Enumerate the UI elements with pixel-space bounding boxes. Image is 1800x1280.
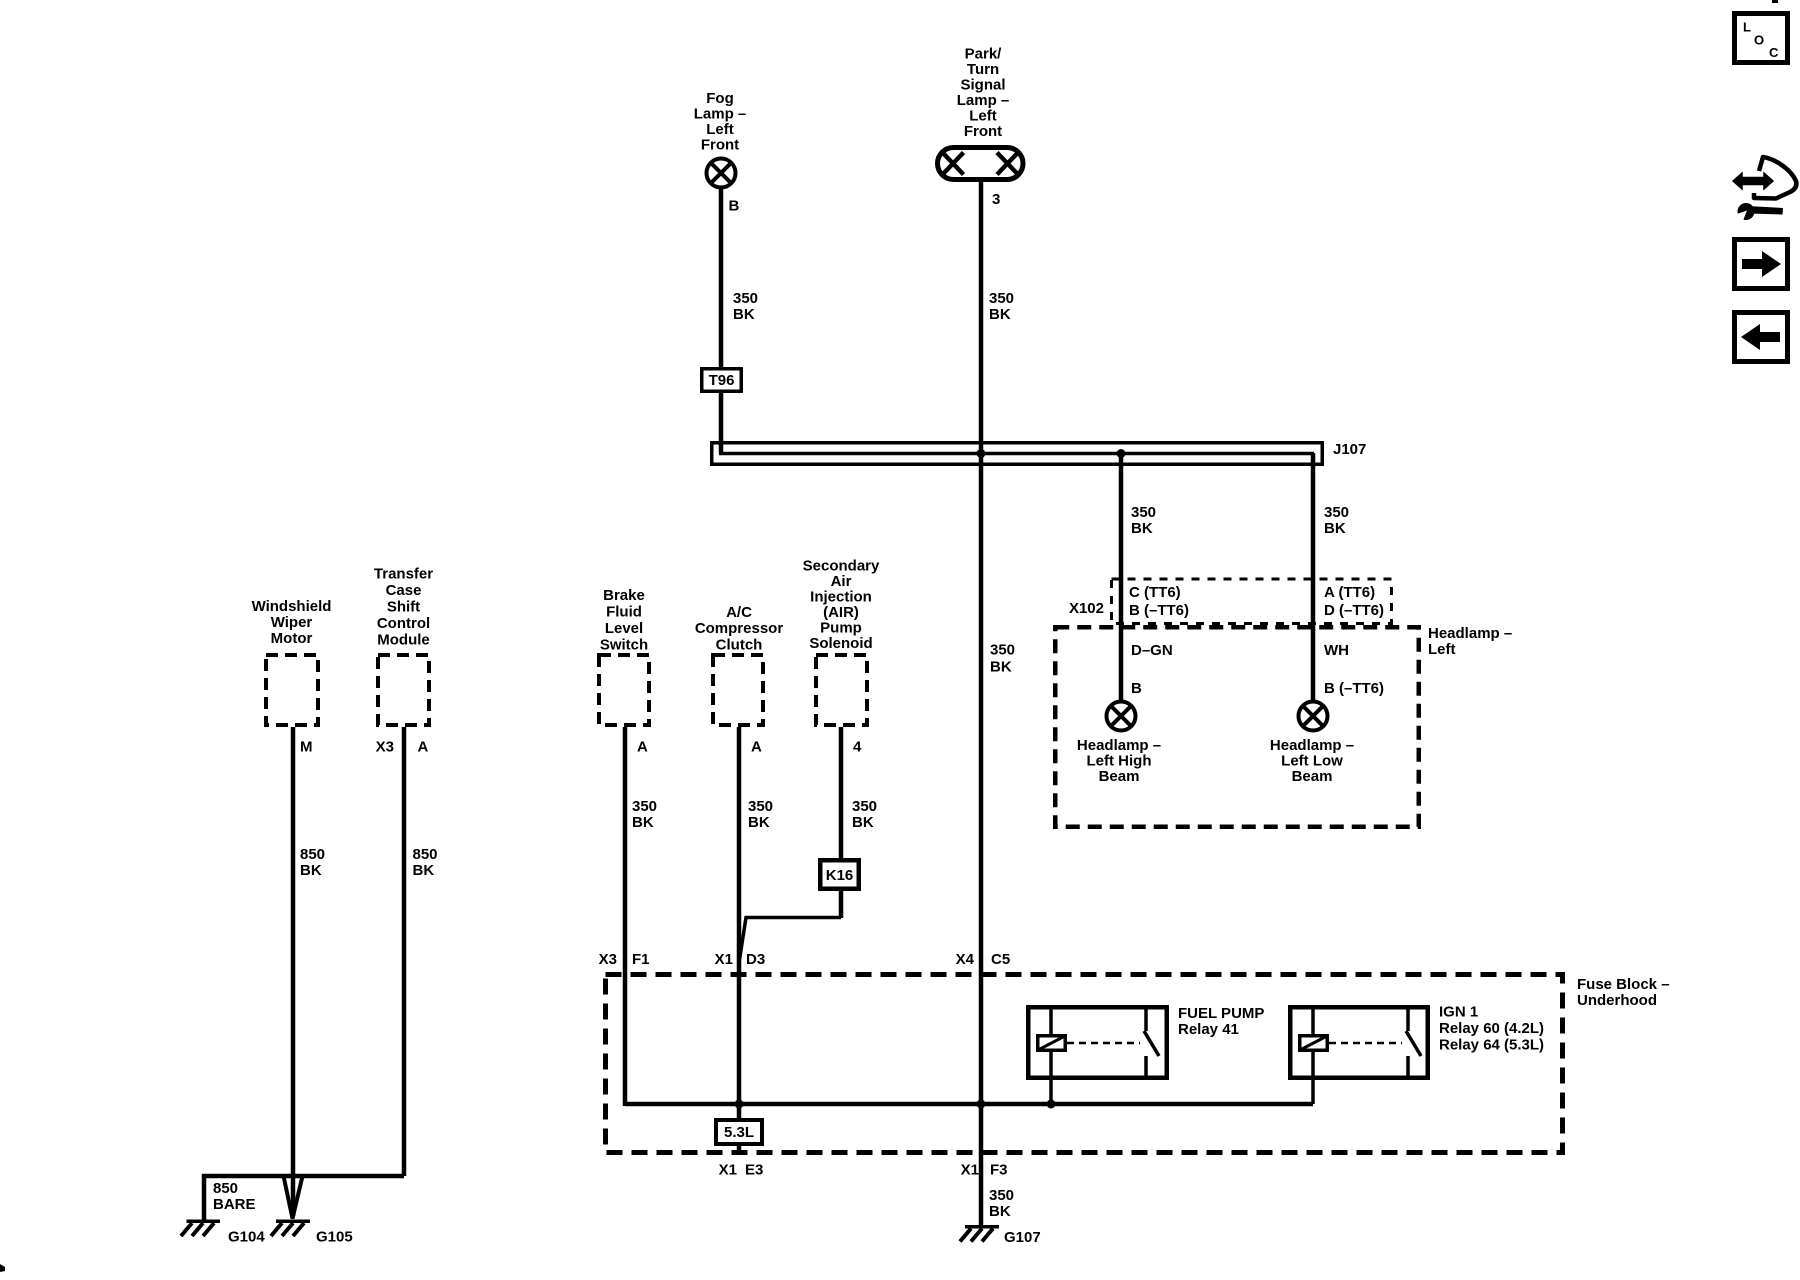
tool/diagnostic icon (double arrow, wrench, outline)	[1733, 157, 1796, 222]
svg-text:350: 350	[852, 798, 877, 815]
wire label 350 BK (park middle)	[990, 642, 1015, 676]
wire: air pump solenoid to K16	[839, 727, 844, 860]
fog lamp symbol	[707, 159, 736, 188]
svg-text:B (–TT6): B (–TT6)	[1129, 602, 1189, 619]
Headlamp - Left dashed box	[1055, 627, 1419, 827]
svg-text:Left: Left	[1428, 641, 1456, 658]
junction dot bus/park wire	[977, 1100, 986, 1109]
svg-text:Left: Left	[706, 121, 734, 138]
svg-text:C: C	[1769, 45, 1779, 60]
svg-text:Air: Air	[831, 573, 852, 590]
wire label 850 BK (transfer)	[413, 846, 438, 879]
svg-text:Left: Left	[969, 108, 997, 125]
Fuse Block - Underhood label	[1577, 976, 1670, 1009]
svg-text:WH: WH	[1324, 642, 1349, 659]
wire label 350 BK (G107 leg)	[989, 1187, 1014, 1220]
A/C Compressor Clutch dashed box	[713, 655, 763, 725]
svg-text:Solenoid: Solenoid	[809, 635, 872, 652]
svg-text:Beam: Beam	[1099, 768, 1140, 785]
svg-text:Shift: Shift	[387, 599, 420, 616]
Windshield Wiper Motor label	[252, 598, 332, 647]
svg-text:A (TT6): A (TT6)	[1324, 584, 1375, 601]
junction dot bus/D3 wire	[735, 1100, 744, 1109]
Transfer Case Shift Control Module dashed box	[378, 655, 429, 725]
svg-text:Compressor: Compressor	[695, 620, 784, 637]
svg-text:Front: Front	[964, 123, 1002, 140]
svg-text:J107: J107	[1333, 441, 1366, 458]
svg-text:Relay 64 (5.3L): Relay 64 (5.3L)	[1439, 1037, 1544, 1054]
svg-text:X102: X102	[1069, 600, 1104, 617]
svg-text:G105: G105	[316, 1229, 353, 1246]
svg-text:Beam: Beam	[1292, 768, 1333, 785]
svg-text:Headlamp –: Headlamp –	[1428, 625, 1512, 642]
svg-text:BK: BK	[1131, 520, 1153, 537]
wire: windshield wiper motor pin M to ground splice	[291, 727, 296, 1216]
svg-text:BK: BK	[989, 306, 1011, 323]
pin labels A (TT6) / D (-TT6)	[1324, 584, 1384, 619]
Headlamp - Left label	[1428, 625, 1512, 658]
svg-text:B (–TT6): B (–TT6)	[1324, 680, 1384, 697]
A/C Compressor Clutch label	[695, 604, 784, 654]
svg-text:Pump: Pump	[820, 620, 862, 637]
svg-text:BK: BK	[300, 862, 322, 879]
Headlamp - Left Low Beam label	[1270, 737, 1354, 785]
svg-text:T96: T96	[709, 372, 735, 389]
connector X102 dotted box	[1112, 579, 1392, 624]
svg-text:X1: X1	[961, 1162, 979, 1179]
5.3L tag box	[716, 1120, 762, 1144]
svg-text:Wiper: Wiper	[271, 614, 313, 631]
Secondary Air Injection Pump Solenoid dashed box	[816, 655, 867, 725]
wire: bottom-left horizontal run to G104	[204, 1176, 404, 1222]
svg-text:Headlamp –: Headlamp –	[1077, 737, 1161, 754]
wire label 350 BK (low beam)	[1324, 504, 1349, 537]
svg-text:M: M	[300, 739, 313, 756]
svg-text:Level: Level	[605, 620, 643, 637]
wire label 350 BK (park upper)	[989, 290, 1014, 323]
svg-text:Brake: Brake	[603, 587, 645, 604]
svg-text:A: A	[637, 739, 648, 756]
svg-text:B: B	[729, 198, 740, 215]
svg-text:X3: X3	[599, 951, 617, 968]
svg-text:X1: X1	[719, 1162, 737, 1179]
svg-text:Fuse Block –: Fuse Block –	[1577, 976, 1670, 993]
svg-text:IGN 1: IGN 1	[1439, 1004, 1478, 1021]
ground G107	[960, 1225, 1041, 1246]
svg-text:Lamp –: Lamp –	[694, 106, 747, 123]
svg-text:Case: Case	[386, 582, 422, 599]
wire: brake switch to fuse block F1	[623, 727, 628, 1106]
wire: transfer case module pin A down	[402, 727, 407, 1176]
svg-text:BK: BK	[1324, 520, 1346, 537]
svg-text:G107: G107	[1004, 1229, 1041, 1246]
svg-text:Motor: Motor	[271, 630, 313, 647]
fuse block pin labels X1 | F3	[961, 1162, 1008, 1179]
svg-text:BK: BK	[748, 814, 770, 831]
svg-text:Clutch: Clutch	[716, 637, 763, 654]
svg-text:Control: Control	[377, 615, 430, 632]
svg-text:BK: BK	[413, 862, 435, 879]
Park/Turn Signal Lamp - Left Front label	[957, 46, 1010, 141]
FUEL PUMP Relay 41	[1028, 1005, 1167, 1104]
fuse block pin labels X3 | F1	[599, 951, 650, 968]
svg-text:D–GN: D–GN	[1131, 642, 1173, 659]
park/turn signal lamp symbol	[938, 148, 1024, 180]
svg-text:FUEL PUMP: FUEL PUMP	[1178, 1005, 1264, 1022]
svg-text:C5: C5	[991, 951, 1010, 968]
stray mark bottom left edge	[0, 1264, 5, 1272]
svg-text:Transfer: Transfer	[374, 566, 433, 583]
svg-text:Fog: Fog	[706, 90, 734, 107]
svg-text:C (TT6): C (TT6)	[1129, 584, 1181, 601]
wire: J107 to left low beam	[1311, 453, 1316, 702]
fuse block pin labels X4 | C5	[956, 951, 1011, 968]
left arrow nav box	[1735, 313, 1788, 362]
in-line connector K16	[820, 860, 859, 889]
wire: park/turn lamp down to ground G107	[979, 182, 984, 1225]
wire: a/c clutch through D3 to E3	[737, 727, 742, 1155]
svg-text:Signal: Signal	[960, 77, 1005, 94]
svg-text:Headlamp –: Headlamp –	[1270, 737, 1354, 754]
svg-text:BK: BK	[632, 814, 654, 831]
junction dot J107/high beam drop	[1117, 449, 1126, 458]
svg-text:D3: D3	[746, 951, 765, 968]
svg-text:X4: X4	[956, 951, 975, 968]
svg-text:Switch: Switch	[600, 637, 648, 654]
svg-text:Windshield: Windshield	[252, 598, 332, 615]
svg-text:O: O	[1754, 33, 1764, 48]
svg-text:BK: BK	[852, 814, 874, 831]
wire: J107 to left high beam	[1119, 453, 1124, 702]
ground G105	[271, 1220, 353, 1246]
Fuse Block - Underhood dashed box	[606, 975, 1563, 1153]
svg-text:K16: K16	[826, 867, 854, 884]
svg-text:Park/: Park/	[965, 46, 1003, 63]
svg-text:Turn: Turn	[967, 61, 999, 78]
wire label 350 BK (air)	[852, 798, 877, 831]
Brake Fluid Level Switch dashed box	[599, 655, 649, 725]
fuse block pin labels X1 | D3	[715, 951, 766, 968]
svg-text:F1: F1	[632, 951, 650, 968]
svg-text:Module: Module	[377, 632, 430, 649]
svg-text:350: 350	[1131, 504, 1156, 521]
svg-text:Underhood: Underhood	[1577, 992, 1657, 1009]
Secondary Air Injection (AIR) Pump Solenoid label	[803, 558, 880, 653]
wire: fog lamp to J107	[719, 188, 724, 455]
wire: K16 down and over to D3	[739, 891, 841, 963]
svg-text:X3: X3	[376, 739, 394, 756]
wire label 850 BARE	[213, 1180, 256, 1213]
svg-text:350: 350	[1324, 504, 1349, 521]
svg-text:Left Low: Left Low	[1281, 753, 1343, 770]
svg-text:B: B	[1131, 680, 1142, 697]
pin labels C (TT6) / B (-TT6)	[1129, 584, 1189, 619]
IGN 1 relay label	[1439, 1004, 1544, 1054]
svg-text:Secondary: Secondary	[803, 558, 880, 575]
LOC legend box	[1735, 14, 1788, 63]
svg-text:Lamp –: Lamp –	[957, 92, 1010, 109]
svg-text:Injection: Injection	[810, 589, 872, 606]
junction dot J107/park wire	[977, 449, 986, 458]
pin labels X3 | A	[376, 739, 429, 756]
svg-text:Left High: Left High	[1087, 753, 1152, 770]
svg-text:BK: BK	[733, 306, 755, 323]
svg-text:BK: BK	[990, 659, 1012, 676]
svg-text:350: 350	[748, 798, 773, 815]
junction dot bus/fuel pump relay coil	[1047, 1100, 1056, 1109]
Transfer Case Shift Control Module label	[374, 566, 433, 649]
svg-text:Relay 60 (4.2L): Relay 60 (4.2L)	[1439, 1020, 1544, 1037]
svg-text:3: 3	[992, 191, 1000, 208]
svg-text:350: 350	[632, 798, 657, 815]
IGN 1 relay	[1290, 1005, 1428, 1104]
svg-text:BK: BK	[989, 1203, 1011, 1220]
svg-text:350: 350	[989, 1187, 1014, 1204]
svg-text:5.3L: 5.3L	[724, 1124, 754, 1141]
wire label 350 BK (brake)	[632, 798, 657, 831]
headlamp left low beam lamp symbol	[1299, 702, 1328, 731]
svg-text:Relay 41: Relay 41	[1178, 1021, 1239, 1038]
in-line connector T96	[702, 369, 742, 392]
svg-text:A/C: A/C	[726, 604, 752, 621]
splice pack J107	[712, 441, 1367, 466]
svg-text:X1: X1	[715, 951, 733, 968]
svg-text:D (–TT6): D (–TT6)	[1324, 602, 1384, 619]
svg-text:A: A	[418, 739, 429, 756]
FUEL PUMP Relay 41 label	[1178, 1005, 1264, 1038]
internal ground bus wire	[625, 1102, 1313, 1107]
svg-text:850: 850	[300, 846, 325, 863]
headlamp left high beam lamp symbol	[1107, 702, 1136, 731]
svg-text:E3: E3	[745, 1162, 763, 1179]
svg-text:L: L	[1743, 20, 1751, 35]
wire label 850 BK (wiper)	[300, 846, 325, 879]
right arrow nav box	[1735, 240, 1788, 289]
svg-text:BARE: BARE	[213, 1196, 256, 1213]
svg-text:Fluid: Fluid	[606, 604, 642, 621]
svg-text:(AIR): (AIR)	[823, 604, 859, 621]
Windshield Wiper Motor dashed box	[266, 655, 318, 725]
stray mark top right edge	[1772, 0, 1778, 3]
svg-text:350: 350	[733, 290, 758, 307]
svg-text:G104: G104	[228, 1229, 265, 1246]
fuse block pin labels X1 | E3	[719, 1162, 764, 1179]
svg-text:350: 350	[990, 642, 1015, 659]
Fog Lamp - Left Front label	[694, 90, 747, 154]
svg-text:4: 4	[853, 739, 862, 756]
svg-text:F3: F3	[990, 1162, 1008, 1179]
svg-text:A: A	[751, 739, 762, 756]
wire label 350 BK (high beam)	[1131, 504, 1156, 537]
splice arrow into G105	[284, 1176, 303, 1219]
ground G104	[181, 1220, 265, 1246]
wire label 350 BK (a/c)	[748, 798, 773, 831]
svg-text:850: 850	[413, 846, 438, 863]
Headlamp - Left High Beam label	[1077, 737, 1161, 785]
Brake Fluid Level Switch label	[600, 587, 648, 654]
wire label 350 BK (fog)	[733, 290, 758, 323]
svg-text:850: 850	[213, 1180, 238, 1197]
svg-text:Front: Front	[701, 137, 739, 154]
svg-text:350: 350	[989, 290, 1014, 307]
